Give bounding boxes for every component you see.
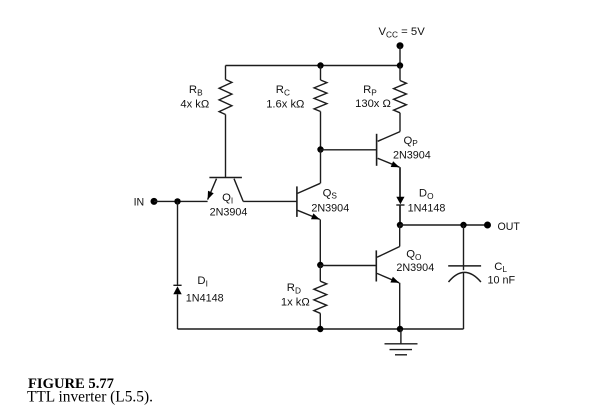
wire DI top [177, 201, 179, 285]
wire QI collector to QS base [243, 200, 297, 202]
transistor QI emitter [208, 179, 217, 200]
transistor Q4 QO base bar [375, 250, 377, 281]
transistor Q3 QP base bar [376, 134, 378, 166]
wire QO collector up [399, 225, 401, 247]
wire IN [154, 200, 208, 202]
wire QS emitter down [319, 219, 321, 265]
node RC bottom junction [317, 146, 323, 152]
node QS emitter junction [317, 262, 323, 268]
node QO emitter ground junction [397, 326, 403, 332]
wire QO emitter down [399, 283, 401, 329]
svg-text:OUT: OUT [498, 221, 521, 233]
svg-text:2N3904: 2N3904 [311, 203, 349, 215]
terminal IN [151, 198, 158, 205]
wire to QO base [320, 265, 376, 267]
svg-text:130x Ω: 130x Ω [355, 98, 391, 110]
svg-text:IN: IN [134, 196, 145, 208]
ground [400, 329, 402, 344]
resistor R2 RC [320, 66, 322, 81]
svg-text:2N3904: 2N3904 [393, 149, 431, 161]
svg-text:2N3904: 2N3904 [210, 207, 248, 219]
transistor Q2 QS base bar [296, 186, 298, 217]
svg-text:4x kΩ: 4x kΩ [180, 98, 209, 110]
wire bottom rail [178, 328, 464, 330]
wire DI bottom [177, 294, 179, 329]
resistor R4 RD [319, 265, 321, 281]
wire CL bottom [463, 272, 465, 329]
svg-text:10 nF: 10 nF [487, 274, 515, 286]
resistor R1 RB [225, 66, 227, 80]
svg-text:1N4148: 1N4148 [186, 292, 224, 304]
wire RC junction down [320, 150, 322, 184]
wire QP emitter to DO [399, 167, 401, 197]
wire top rail [226, 65, 401, 67]
wire CL top [463, 225, 465, 270]
node CL junction [460, 222, 466, 228]
diode D2 DO [396, 197, 404, 204]
node RD bottom junction [317, 326, 323, 332]
svg-text:1N4148: 1N4148 [408, 202, 446, 214]
capacitor C1 CL plates [448, 265, 481, 267]
transistor QI collector [234, 179, 243, 202]
svg-text:1.6x kΩ: 1.6x kΩ [266, 98, 304, 110]
resistor R3 RP [399, 66, 401, 81]
transistor QO emitter [377, 273, 399, 282]
svg-text:2N3904: 2N3904 [396, 262, 434, 274]
terminal OUT [484, 222, 491, 229]
wire VCC stub [399, 46, 401, 66]
node IN junction [174, 198, 180, 204]
transistor QS emitter [298, 210, 320, 219]
node rail-RP junction [397, 62, 403, 68]
node rail-RC junction [317, 62, 323, 68]
power terminal VCC [397, 42, 404, 49]
transistor QP collector [378, 132, 400, 142]
transistor QS collector [298, 183, 321, 193]
transistor QO collector [377, 247, 400, 258]
node DO-QO-OUT junction [397, 222, 403, 228]
wire OUT [400, 224, 488, 226]
wire DO to OUT node [399, 205, 401, 225]
svg-text:VCC = 5V: VCC = 5V [379, 26, 426, 39]
transistor QP emitter [378, 158, 400, 167]
svg-text:TTL inverter (L5.5).: TTL inverter (L5.5). [27, 389, 153, 406]
svg-text:1x kΩ: 1x kΩ [281, 297, 310, 309]
transistor Q1 QI base bar [209, 177, 242, 179]
wire RC junction to QP base [321, 149, 377, 151]
diode D1 DI [173, 284, 181, 286]
